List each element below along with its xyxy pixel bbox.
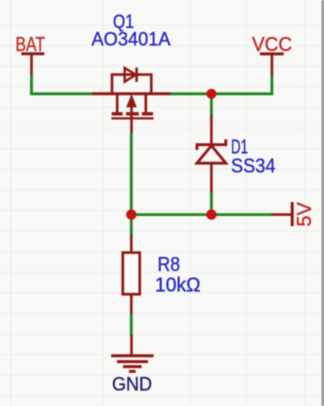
transistor Q1 body-diode triangle (125, 68, 136, 82)
transistor Q1 gate plate (111, 117, 153, 119)
diode D1 anode lead (210, 163, 213, 192)
label SS34 (231, 155, 276, 177)
ground (111, 335, 153, 371)
transistor Q1 body arrow (127, 95, 136, 133)
junction dot node VCC/drain (206, 89, 216, 99)
wire bottom horizontal to 5V (131, 213, 272, 216)
junction dot node gate/5V rail (126, 209, 136, 219)
power port BAT (21, 54, 44, 75)
transistor Q1 drain stub (145, 94, 148, 113)
transistor Q1 body-diode loop (112, 75, 151, 94)
resistor R8 box (123, 253, 140, 295)
diode D1 top lead (210, 115, 213, 144)
junction dot node diode anode (206, 209, 216, 219)
wire node to diode D1 cathode (210, 95, 213, 116)
transistor Q1 P-MOSFET body (92, 92, 170, 95)
resistor R8 bottom lead (130, 294, 133, 314)
svg-text:R8: R8 (158, 254, 181, 276)
label VCC (252, 34, 292, 56)
diode D1 triangle (197, 146, 226, 164)
diode D1 schottky cathode bar (197, 139, 226, 150)
power port VCC (260, 54, 284, 75)
label GND (112, 375, 152, 396)
power port 5V (272, 202, 293, 226)
label BAT (16, 34, 46, 56)
label 5V (294, 201, 316, 226)
transistor Q1 channel bars (112, 112, 153, 115)
svg-text:GND: GND (112, 375, 152, 396)
resistor R8 top lead (130, 235, 133, 254)
label 10k ohm (155, 274, 201, 296)
window edge (322, 0, 324, 406)
label R8 (158, 254, 181, 276)
svg-text:AO3401A: AO3401A (92, 30, 171, 51)
label Q1 (113, 12, 134, 33)
transistor Q1 source stub (116, 94, 119, 113)
svg-text:5V: 5V (294, 201, 316, 226)
wire node to resistor R8 (130, 215, 133, 236)
svg-text:VCC: VCC (252, 34, 292, 56)
wire MOSFET drain to VCC (170, 74, 272, 94)
transistor Q1 body-diode cathode bar (135, 68, 138, 82)
svg-text:BAT: BAT (16, 34, 46, 56)
label AO3401A (92, 30, 171, 51)
wire resistor R8 to GND (130, 314, 133, 337)
wire BAT to MOSFET source (32, 74, 94, 94)
label D1 (231, 136, 248, 158)
wire MOSFET gate down (130, 133, 133, 216)
svg-text:10kΩ: 10kΩ (155, 274, 201, 296)
wire diode D1 anode to node (210, 192, 213, 215)
svg-text:SS34: SS34 (231, 155, 276, 177)
